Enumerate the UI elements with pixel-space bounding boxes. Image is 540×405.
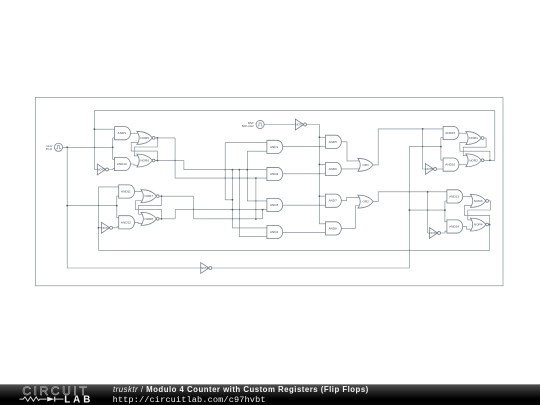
AND gate AND5 <box>326 135 342 148</box>
footer CircuitLab logo wordmark <box>22 384 93 405</box>
wire NOR6 output <box>155 160 184 162</box>
wire AND9 out to NOR5 in A <box>130 132 138 134</box>
svg-text:NOR2: NOR2 <box>469 158 478 162</box>
NOT gate (inverter) NOT1 <box>295 119 306 130</box>
voltage source V2 RST <box>242 120 264 128</box>
wire NOR2 to NOR1 cross-coupling <box>460 143 490 161</box>
crossing Q1 over NOR6 out <box>175 160 176 162</box>
AND gate AND1 <box>267 140 283 153</box>
crossing AND1 out over RSTbar <box>319 146 320 148</box>
svg-text:AND4: AND4 <box>270 230 279 234</box>
wire NOT6 out to AND14 in B <box>441 231 447 233</box>
wire FF2 clock stub to AND12 input A <box>117 217 119 219</box>
svg-text:NOT1: NOT1 <box>296 123 304 127</box>
NOT gate (inverter) NOT5 <box>425 164 436 175</box>
AND gate AND16 <box>443 158 459 171</box>
OR gate OR1 <box>358 158 373 171</box>
wire net Q1 route to AND column <box>175 138 267 178</box>
wire FF2 clock stub to AND11 input B <box>117 195 119 197</box>
crossing B over Q0 <box>232 218 233 220</box>
crossing E over AND3 row <box>255 200 256 202</box>
wire NOR5 to NOR6 cross-coupling <box>134 138 157 156</box>
NOR gate NOR1 <box>466 132 484 145</box>
AND gate AND13 <box>447 190 463 203</box>
crossing NOT6 feed over CLKbar row <box>427 209 428 211</box>
svg-text:AND1: AND1 <box>270 145 279 149</box>
NOR gate NOR5 <box>137 131 155 144</box>
crossing D0 over FF2 clock row <box>98 205 99 207</box>
junction Q0bar column F <box>262 209 264 211</box>
wire decoder column C <box>239 170 267 237</box>
svg-text:NOR1: NOR1 <box>469 136 478 140</box>
svg-text:NOR3: NOR3 <box>474 199 483 203</box>
AND gate AND11 <box>119 185 135 198</box>
svg-text:NOT2: NOT2 <box>102 226 110 230</box>
crossing A over Q1 <box>225 177 226 179</box>
AND gate AND9 <box>115 127 131 140</box>
AND gate AND4 <box>267 225 283 238</box>
svg-text:LAB: LAB <box>64 394 93 405</box>
crossing C over Q0 <box>239 218 240 220</box>
svg-text:AND16: AND16 <box>445 163 455 167</box>
wire net Q0 route to AND column <box>194 196 263 219</box>
AND gate AND12 <box>119 216 135 229</box>
junction FF2 clock <box>116 205 118 207</box>
junction CLKbar top FF <box>440 146 442 148</box>
OR gate OR2 <box>358 195 373 208</box>
wire net D1 top feedback (NOR2 out to FF1 D) <box>94 111 494 170</box>
NOR gate NOR2 <box>466 154 484 167</box>
svg-text:AND6: AND6 <box>329 167 338 171</box>
wire net D0 bottom feedback (NOR4 out to FF2 D) <box>99 187 490 250</box>
AND gate AND14 <box>447 220 463 233</box>
svg-text:OR1: OR1 <box>363 163 370 167</box>
svg-text:AND11: AND11 <box>121 190 131 194</box>
junction RSTbar AND6 <box>319 164 321 166</box>
wire net Q1bar route to AND column <box>184 161 267 170</box>
crossing D1 over CLK <box>94 146 95 148</box>
svg-text:AND9: AND9 <box>118 131 127 135</box>
wire CLKbar vertical AND13/AND14 inputs <box>445 201 447 222</box>
wire AND4 out to AND8 in B <box>283 231 326 233</box>
crossing CLKbar over bottom feedback <box>409 249 410 251</box>
svg-text:AND15: AND15 <box>445 131 455 135</box>
wire AND8 out to OR2 in B <box>341 206 360 229</box>
junction RSTbar AND7 <box>319 195 321 197</box>
wire AND14 out to NOR4 in B <box>463 226 473 229</box>
junction Q0bar column B <box>232 209 234 211</box>
wire OR2 branch to NOT6 <box>428 192 430 233</box>
wire FF1 clock stub to AND9 input B <box>113 137 115 139</box>
wire AND13 out to NOR3 in A <box>463 195 473 197</box>
crossing E over Q0bar row <box>255 209 256 211</box>
svg-text:AND12: AND12 <box>121 220 131 224</box>
svg-text:OR2: OR2 <box>363 200 370 204</box>
wire RSTbar stub AND5 <box>319 136 325 138</box>
wire RSTbar stub AND6 <box>319 163 325 165</box>
footer logo diode symbol <box>47 397 63 402</box>
wire decoder column D <box>247 151 267 201</box>
crossing AND2 out over RSTbar <box>319 173 320 175</box>
wire CLK down left side to bottom inverter <box>67 147 200 268</box>
wire NOR4 output <box>489 224 490 226</box>
schematic outer border <box>35 97 503 285</box>
NOT gate (inverter) NOT3 <box>97 164 108 175</box>
AND gate AND10 <box>115 157 131 170</box>
wire decoder column B <box>232 170 267 228</box>
junction FF1 clock <box>112 146 114 148</box>
junction NOR4 output <box>489 224 491 226</box>
wire CLKbar branch row to bottom-right FF <box>409 209 445 211</box>
wire AND2 out to AND6 in B <box>283 173 326 175</box>
NOR gate NOR7 <box>141 190 159 203</box>
wire RSTbar distribution vertical <box>307 125 326 224</box>
wire NOR7 output <box>159 195 193 197</box>
svg-text:NOR8: NOR8 <box>144 217 153 221</box>
crossing D over Q1 <box>247 177 248 179</box>
junction NOR5 output <box>157 137 159 139</box>
junction D1/AND9 input <box>94 128 96 130</box>
wire AND15 out to NOR1 in A <box>459 132 468 134</box>
wire RST source to NOT1 <box>264 124 295 126</box>
wire decoder column A <box>225 143 232 200</box>
junction D0/NOT2 input <box>98 227 100 229</box>
wire NOR4 to NOR3 cross-coupling <box>465 205 490 224</box>
wire NOR3 to NOR4 cross-coupling <box>468 201 491 220</box>
wire OR2 out to AND13 in A <box>373 192 447 202</box>
junction column C top <box>239 169 241 171</box>
wire NOR6 to NOR5 cross-coupling <box>131 142 157 160</box>
wire NOT5 out to AND16 in B <box>437 168 444 170</box>
svg-text:AND13: AND13 <box>449 194 459 198</box>
wire row to AND1 in B <box>247 150 267 152</box>
junction NOR6 output <box>157 160 159 162</box>
AND gate AND3 <box>267 198 283 211</box>
wire NOT2 out to AND12 in B <box>113 226 119 229</box>
junction Q0 column E <box>255 218 257 220</box>
junction CLK FF2 branch <box>66 205 68 207</box>
svg-text:NOT5: NOT5 <box>426 167 434 171</box>
svg-text:500 mHz: 500 mHz <box>242 124 255 128</box>
NOT gate (inverter) NOT2 <box>101 222 112 233</box>
wire row to AND1 in A <box>225 142 267 144</box>
crossing AND3 out over RSTbar <box>319 204 320 206</box>
wire CLKbar from bottom inverter up right side <box>212 147 441 268</box>
wire NOR8 to NOR7 cross-coupling <box>135 201 161 219</box>
junction NOR7 output <box>161 195 163 197</box>
junction column B top <box>232 169 234 171</box>
svg-text:NOT6: NOT6 <box>430 231 438 235</box>
wire RSTbar stub AND7 <box>319 195 325 197</box>
svg-text:AND7: AND7 <box>329 199 338 203</box>
crossing C over Q0bar <box>239 209 240 211</box>
footer logo resistor symbol <box>20 397 47 401</box>
junction CLKbar bottom FF <box>444 209 446 211</box>
wire decoder column E <box>255 178 257 219</box>
svg-text:AND2: AND2 <box>270 172 279 176</box>
NOR gate NOR8 <box>141 212 159 225</box>
wire AND11 out to NOR7 in A <box>135 191 143 193</box>
crossing Q0 over Q0bar row <box>193 208 194 210</box>
junction RSTbar AND5 <box>319 136 321 138</box>
wire decoder column F <box>262 210 264 219</box>
svg-text:NOR4: NOR4 <box>474 223 483 227</box>
svg-text:NOR5: NOR5 <box>140 136 149 140</box>
wire CLK branch to FF2 clock row <box>67 205 117 207</box>
svg-text:NOR7: NOR7 <box>144 194 153 198</box>
junction Q1 column E <box>255 177 257 179</box>
junction jog joins column B <box>232 199 234 201</box>
wire FF2 clock vertical <box>116 196 118 218</box>
junction NOR2 output <box>489 159 491 161</box>
wire net Q0bar route to AND column <box>175 210 267 219</box>
wire CLK from source <box>63 146 114 148</box>
junction CLKbar branch <box>409 209 411 211</box>
junction OR2 branch <box>427 191 429 193</box>
AND gate AND6 <box>326 162 342 175</box>
wire D0 stub to NOT2 input <box>99 227 102 229</box>
wire AND1 out to AND5 in B <box>283 146 326 148</box>
wire FF1 clock stub to AND10 input A <box>113 158 115 160</box>
svg-text:AND8: AND8 <box>329 226 338 230</box>
AND gate AND2 <box>267 167 283 180</box>
crossing CLKbar over D0p row <box>409 191 410 193</box>
junction Q1bar column D <box>246 169 248 171</box>
AND gate AND15 <box>443 126 459 139</box>
svg-text:NOT3: NOT3 <box>97 168 105 172</box>
wire CLKbar hook to AND15 input B <box>441 138 443 147</box>
junction OR1 branch <box>422 128 424 130</box>
wire AND5 out to OR1 in A <box>341 142 360 161</box>
svg-text:8 Hz: 8 Hz <box>46 147 53 151</box>
svg-text:NOR6: NOR6 <box>140 159 149 163</box>
wire CLKbar down to AND16 input A <box>441 147 443 160</box>
NOR gate NOR3 <box>470 194 488 207</box>
wire FF1 clock vertical <box>112 138 114 160</box>
wire AND3 out to AND7 in B <box>283 204 326 206</box>
voltage source V1 CLK <box>46 143 63 151</box>
wire NOR7 to NOR8 cross-coupling <box>138 196 161 214</box>
wire AND10 out to NOR6 in B <box>130 164 138 165</box>
crossing NOT5 feed over CLKbar <box>422 146 423 148</box>
svg-text:AND14: AND14 <box>449 224 459 228</box>
junction NOR8 output <box>161 218 163 220</box>
crossing C over Q1 <box>239 177 240 179</box>
NOT gate (inverter) NOT6 <box>429 228 440 239</box>
svg-text:NOT4: NOT4 <box>201 266 209 270</box>
NOR gate NOR6 <box>137 154 155 167</box>
NOR gate NOR4 <box>470 218 488 231</box>
wire OR1 out to AND15 in A <box>373 129 443 165</box>
wire NOR5 output <box>155 137 175 139</box>
wire NOR8 output <box>159 218 175 220</box>
wire AND16 out to NOR2 in B <box>459 164 468 166</box>
crossing A over Q1bar <box>225 169 226 171</box>
AND gate AND8 <box>326 222 342 235</box>
junction CLK at x67 <box>66 146 68 148</box>
svg-text:AND5: AND5 <box>329 140 338 144</box>
svg-text:AND3: AND3 <box>270 203 279 207</box>
wire OR1 branch to NOT5 <box>423 129 426 169</box>
wire D1 branch to AND9 input A <box>94 128 114 130</box>
wire NOT3 out to AND10 in B <box>109 168 115 171</box>
wire AND7 out to OR2 in A <box>341 198 360 201</box>
wire AND12 out to NOR8 in B <box>135 222 143 223</box>
crossing B over Q1 <box>232 177 233 179</box>
wire AND6 out to OR1 in B <box>341 168 360 170</box>
svg-text:AND10: AND10 <box>117 162 127 166</box>
wire NOR1 to NOR2 cross-coupling <box>463 138 486 156</box>
AND gate AND7 <box>326 194 342 207</box>
footer bar <box>0 384 540 405</box>
NOT gate (inverter) NOT4 <box>201 263 212 274</box>
